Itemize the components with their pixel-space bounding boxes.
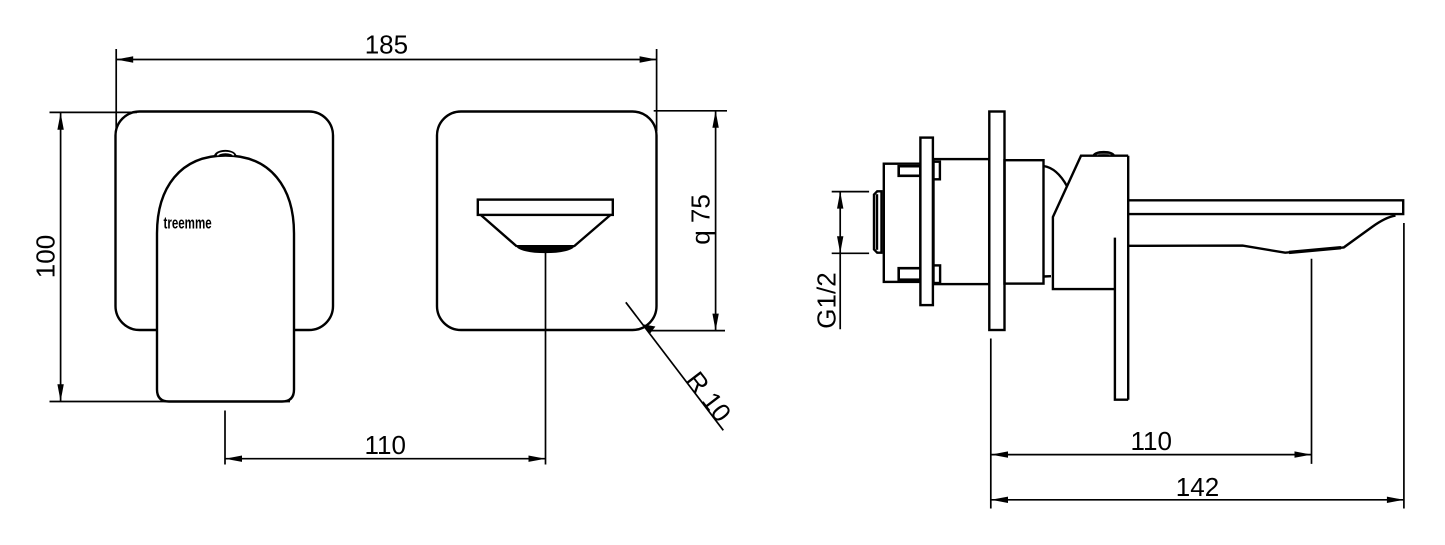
mounting bracket plate — [920, 138, 933, 306]
dim 100 line — [60, 113, 62, 402]
svg-text:q 75: q 75 — [686, 194, 716, 245]
cover bar below head — [1115, 238, 1128, 400]
screw boss top — [934, 162, 940, 180]
fixing screw top — [899, 166, 921, 176]
G1/2 extension bottom — [832, 252, 869, 254]
head cap dome (side) — [1092, 151, 1115, 156]
wall escutcheon plate (side) — [989, 112, 1004, 331]
svg-text:110: 110 — [1130, 426, 1171, 456]
dim 185 extension right — [656, 49, 658, 131]
svg-text:100: 100 — [31, 235, 61, 278]
head front face edge — [1127, 156, 1129, 400]
svg-text:G1/2: G1/2 — [812, 272, 842, 328]
arrow 110 front right — [529, 456, 546, 462]
arrow side 110 right — [1295, 451, 1312, 457]
spout underside curve (side) — [1128, 216, 1395, 253]
arrow 75 bottom — [712, 314, 718, 331]
thread line — [876, 194, 878, 250]
spout upper bar (side) — [1128, 200, 1403, 214]
arrow G1/2 top — [837, 192, 843, 209]
dim 110 front line — [225, 458, 546, 460]
side dim 110 extension right — [1311, 259, 1313, 464]
arrow side 142 right — [1387, 497, 1404, 503]
G1/2 extension top — [832, 191, 869, 193]
dim 100 extension bottom — [50, 401, 291, 403]
arrow 185 right — [640, 56, 657, 62]
aerator slot thickening on spout underside — [1289, 248, 1341, 253]
in-wall body front section — [934, 159, 990, 284]
mixer head (side) — [1053, 156, 1128, 289]
dim 75 line — [715, 111, 717, 331]
arrow side 110 left — [991, 451, 1008, 457]
arrow R10 — [643, 324, 656, 333]
screw boss bottom — [934, 265, 941, 283]
G1/2 threaded inlet cap — [874, 191, 882, 252]
handle body (front) — [157, 156, 294, 402]
side dim 142 extension right — [1403, 223, 1405, 509]
dim 185 line — [116, 59, 656, 61]
arrow G1/2 bottom — [837, 236, 843, 253]
svg-text:185: 185 — [365, 30, 408, 60]
side dims left extension — [990, 339, 992, 509]
svg-text:treemme: treemme — [164, 214, 212, 233]
spout trapezoid (front) — [481, 215, 611, 247]
wall plate (front) — [116, 112, 334, 331]
handle cap dome (front) — [214, 150, 237, 156]
arrow 110 front left — [225, 456, 242, 462]
dim 75 extension top — [654, 110, 727, 112]
dim 100 extension top — [50, 111, 138, 113]
R10 leader line — [626, 302, 724, 430]
arrow 100 top — [57, 113, 63, 130]
svg-text:142: 142 — [1176, 472, 1219, 502]
side dim 110 line — [991, 454, 1312, 456]
in-wall body rear section — [884, 164, 921, 282]
G1/2 dim line and tail — [839, 192, 841, 330]
fixing screw bottom — [899, 268, 921, 280]
dim 75 extension bottom — [648, 330, 725, 332]
arrow 185 left — [116, 56, 133, 62]
arrow 100 bottom — [57, 384, 63, 401]
collar arc — [1044, 166, 1068, 186]
spout centerline / extension right — [545, 253, 547, 465]
side dim 142 line — [991, 499, 1404, 501]
svg-text:R 10: R 10 — [680, 366, 737, 428]
trim body behind head — [1005, 160, 1044, 283]
arrow 75 top — [712, 111, 718, 128]
dim 185 extension left — [115, 49, 117, 131]
dim 110 front extension left — [224, 411, 226, 465]
arrow side 142 left — [991, 497, 1008, 503]
svg-text:110: 110 — [364, 430, 405, 460]
aerator (front) — [517, 246, 574, 253]
spout escutcheon plate (front) — [437, 112, 657, 331]
spout top bar (front) — [478, 200, 613, 215]
body-head connector stub — [1044, 275, 1052, 278]
